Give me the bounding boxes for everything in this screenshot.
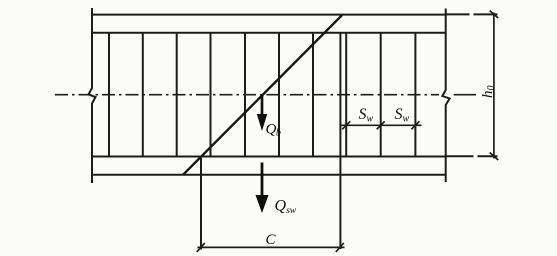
svg-text:C: C [266, 232, 277, 248]
svg-text:Sw: Sw [395, 106, 410, 125]
svg-text:Sw: Sw [359, 106, 374, 125]
svg-text:h0: h0 [480, 86, 497, 99]
svg-text:Qsw: Qsw [275, 198, 297, 217]
